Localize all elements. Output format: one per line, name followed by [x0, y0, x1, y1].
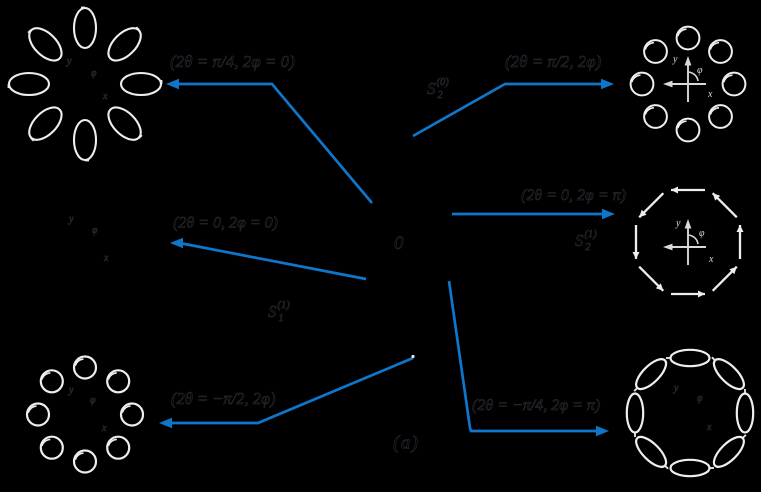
svg-text:x: x — [707, 89, 713, 100]
svg-text:y: y — [672, 54, 678, 65]
svg-text:y: y — [68, 385, 74, 396]
svg-text:S: S — [427, 79, 436, 98]
svg-text:φ: φ — [697, 65, 703, 76]
svg-text:x: x — [101, 423, 107, 434]
svg-text:(2θ = 0, 2φ = π): (2θ = 0, 2φ = π) — [521, 187, 626, 204]
svg-text:(a): (a) — [393, 433, 419, 454]
svg-text:x: x — [102, 91, 108, 102]
svg-text:0: 0 — [394, 233, 404, 254]
svg-text:φ: φ — [91, 68, 97, 79]
svg-text:(2θ = π/4, 2φ = 0): (2θ = π/4, 2φ = 0) — [170, 52, 295, 71]
svg-text:(2θ = 0, 2φ = 0): (2θ = 0, 2φ = 0) — [173, 215, 278, 232]
svg-text:(1): (1) — [278, 300, 291, 311]
svg-text:φ: φ — [92, 225, 98, 236]
svg-text:(2θ = −π/4, 2φ = π): (2θ = −π/4, 2φ = π) — [472, 397, 600, 414]
svg-text:(0): (0) — [437, 77, 450, 88]
svg-text:(2θ = π/2, 2φ): (2θ = π/2, 2φ) — [505, 52, 602, 71]
svg-text:φ: φ — [90, 395, 96, 406]
svg-text:2: 2 — [438, 90, 443, 101]
svg-text:2: 2 — [586, 242, 591, 253]
svg-text:φ: φ — [697, 393, 703, 404]
svg-text:φ: φ — [699, 228, 705, 239]
svg-text:(1): (1) — [585, 229, 598, 240]
svg-text:x: x — [708, 254, 714, 265]
svg-text:1: 1 — [279, 313, 284, 324]
svg-text:y: y — [68, 214, 74, 225]
svg-text:y: y — [673, 383, 679, 394]
svg-text:y: y — [675, 218, 681, 229]
svg-text:x: x — [706, 422, 712, 433]
svg-text:S: S — [575, 231, 584, 250]
svg-text:(2θ = −π/2, 2φ): (2θ = −π/2, 2φ) — [171, 389, 276, 408]
svg-text:y: y — [66, 56, 72, 67]
svg-text:x: x — [103, 253, 109, 264]
svg-text:S: S — [268, 302, 277, 321]
